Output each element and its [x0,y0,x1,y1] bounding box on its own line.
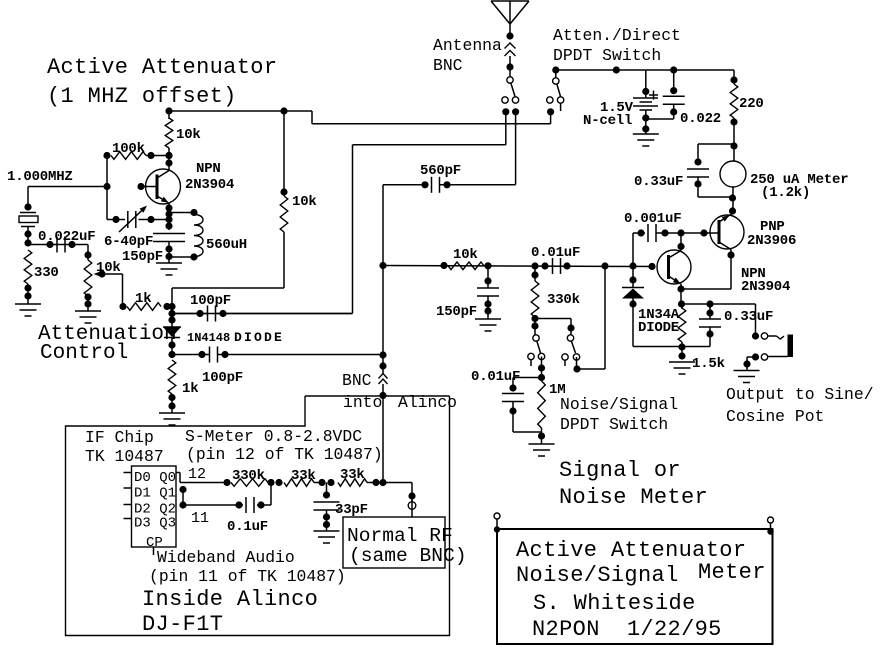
resistor 10k detector [440,262,491,270]
label: 0.022 [680,111,721,127]
svg-text:2N3906: 2N3906 [747,233,796,249]
switch S2b noise/signal [562,335,581,373]
resistor 330 [24,250,32,304]
wire: 560pF to detector [382,185,384,355]
svg-text:DIODE: DIODE [638,320,679,336]
svg-text:D3 Q3: D3 Q3 [134,516,176,532]
ground: pot [75,311,101,323]
svg-text:(pin 11 of TK 10487): (pin 11 of TK 10487) [149,567,346,586]
label: 10k pot [96,260,121,276]
label: 0.01uF noise [471,369,520,385]
label: 220 [739,96,764,112]
label: Signal or Noise Meter [559,458,708,510]
svg-text:220: 220 [739,96,764,112]
svg-text:33pF: 33pF [335,502,368,518]
svg-text:Noise/Signal: Noise/Signal [516,563,679,588]
svg-text:Normal RF: Normal RF [347,525,453,547]
capacitor 0.01uF coupling [531,258,570,274]
wire: to right pole [535,319,575,336]
svg-text:Signal or: Signal or [559,458,681,483]
label: Noise/Signal DPDT Switch [560,395,678,434]
jack: output tip [752,332,784,339]
svg-text:N-cell: N-cell [583,113,632,129]
wire: atten path S1a left throw down [505,112,507,145]
wire: detector line [379,262,655,270]
label: Wideband Audio (pin 11 of TK 10487) [149,548,346,586]
wire: emitter output rail [682,300,756,336]
label: 250 uA Meter (1.2k) [750,172,848,201]
resistor 330k [531,266,539,335]
transistor Q2 NPN 2N3904 [657,250,691,284]
box: title block [497,529,773,644]
label: 560pF [420,163,461,179]
label: BNC into Alinco [342,371,457,412]
svg-text:11: 11 [191,510,209,527]
svg-text:IF Chip: IF Chip [85,428,154,447]
ground: battery [633,134,659,146]
label: PNP 2N3906 [747,219,796,249]
wire: PNP collector to NPN emitter [681,250,735,290]
capacitor 100pF upper [172,306,353,322]
label: 150pF osc [122,249,163,265]
svg-text:DJ-F1T: DJ-F1T [142,612,223,637]
svg-text:1k: 1k [182,381,198,397]
ground: oscillator [156,263,182,275]
svg-text:2N3904: 2N3904 [185,177,234,193]
svg-text:DIODE: DIODE [234,330,284,345]
label: 100pF lower [202,370,243,386]
resistor 1M [538,381,546,444]
svg-text:6-40pF: 6-40pF [104,234,153,250]
ground: 1k bias [159,413,185,425]
label: 0.33uF output [724,309,773,325]
battery 1.5V N-cell [633,70,658,134]
svg-text:TK 10487: TK 10487 [85,447,164,466]
label: 1.5k [692,356,725,372]
label: + [649,91,658,100]
label: 560uH [206,237,247,253]
label: 1N4148 DIODE [187,330,284,345]
wire: switched supply rail [556,66,734,73]
capacitor 560pF [383,177,516,193]
ground: 330 [15,304,41,316]
svg-text:10k: 10k [453,247,478,263]
label: 6-40pF [104,234,153,250]
svg-text:Control: Control [40,342,128,365]
ground: 1.5k [669,362,695,374]
svg-text:1N4148: 1N4148 [187,331,230,345]
trimmer 6-40pF [112,206,169,232]
potentiometer 10k attenuation [84,245,92,312]
svg-text:2N3904: 2N3904 [741,279,790,295]
capacitor 0.022 [646,66,685,119]
ground: 33pF [314,531,340,543]
label: 1N34A DIODE [638,307,680,336]
label: 0.022uF [38,229,95,245]
wire: BNC feed [379,351,386,374]
label: S-Meter 0.8-2.8VDC [185,427,383,464]
label: 33pF [335,502,368,518]
resistor 33k first [284,479,335,487]
svg-text:10k: 10k [176,127,201,143]
connector: Normal RF jack [408,500,416,517]
wire: meter bottom [729,187,736,215]
svg-text:150pF: 150pF [436,304,477,320]
label: 33k first [291,468,316,484]
svg-text:100pF: 100pF [202,370,243,386]
label: 100k [112,141,145,157]
svg-text:33k: 33k [291,468,316,484]
title: Active Attenuator [47,55,277,109]
crystal Y1 [19,203,38,246]
label: Normal RF (same BNC) [347,525,467,567]
resistor 330k chain [231,479,283,487]
diode D2 1N34A [622,266,644,347]
svg-text:0.33uF: 0.33uF [634,174,683,190]
resistor 10k collector [165,107,173,171]
label: 0.1uF [227,519,268,535]
capacitor 150pF osc [153,234,185,264]
svg-text:0.001uF: 0.001uF [624,211,681,227]
switch S1b pole (meter supply) [547,66,564,115]
svg-text:Meter: Meter [698,560,766,585]
capacitor 100pF lower [172,347,383,363]
svg-text:12: 12 [188,466,206,483]
label: Attenuation Control [38,323,177,365]
svg-text:Noise Meter: Noise Meter [559,485,708,510]
svg-text:1k: 1k [135,291,151,307]
capacitor 0.022uF [28,237,88,253]
capacitor 0.001uF [633,224,719,242]
svg-text:NPN: NPN [196,161,221,177]
svg-text:Active Attenuator: Active Attenuator [47,55,277,80]
svg-text:560pF: 560pF [420,163,461,179]
wire: direct path S1a to 560pF [515,112,517,185]
svg-text:0.33uF: 0.33uF [724,309,773,325]
resistor 33k second [338,479,412,487]
capacitor 150pF detector [477,266,499,319]
svg-text:33k: 33k [340,467,365,483]
svg-text:100pF: 100pF [190,293,231,309]
svg-text:Cosine Pot: Cosine Pot [726,407,824,426]
svg-text:(1 MHZ offset): (1 MHZ offset) [47,84,237,109]
wire: S2b to detector line [577,266,605,369]
label: NPN 2N3904 [741,266,790,295]
svg-text:N2PON 1/22/95: N2PON 1/22/95 [532,617,722,642]
svg-text:100k: 100k [112,141,145,157]
resistor 1k attenuation [119,303,170,311]
svg-text:Noise/Signal: Noise/Signal [560,395,678,414]
pin CP stub [153,547,155,555]
transistor Q3 PNP 2N3906 [710,213,744,250]
label: 1k [135,291,151,307]
box: Inside Alinco DJ-F1T [66,396,450,636]
label: pin 12 [188,466,206,483]
label: 10k feedback [292,194,317,210]
meter M1 250uA [720,161,746,187]
svg-text:DPDT Switch: DPDT Switch [553,46,661,65]
label: 0.01uF [531,245,580,261]
jack: sleeve bar [788,335,794,358]
terminal right [767,517,773,535]
svg-text:0.1uF: 0.1uF [227,519,268,535]
svg-text:(same BNC): (same BNC) [349,545,467,567]
wire: 100k left leg [103,156,116,220]
label: 33k second [340,467,365,483]
label: Inside Alinco DJ-F1T [142,587,318,637]
label: 1.5V N-cell [583,100,634,129]
wire: Q2 collector up [677,233,684,251]
svg-text:S-Meter 0.8-2.8VDC: S-Meter 0.8-2.8VDC [185,427,362,446]
svg-text:S. Whiteside: S. Whiteside [533,591,696,616]
label: 0.33uF [634,174,683,190]
label: NPN 2N3904 [185,161,234,193]
svg-text:0.022: 0.022 [680,111,721,127]
switch S2a noise/signal [528,335,545,381]
svg-text:0.01uF: 0.01uF [471,369,520,385]
node: antenna BNC connector [505,32,516,70]
diode D1 1N4148 [163,327,181,358]
wire: Q1 emitter node [165,203,172,231]
inductor 560uH [169,209,203,261]
jack: output ring [743,353,787,370]
transistor Q1 NPN 2N3904 [137,169,180,204]
label: 10k [453,247,478,263]
svg-text:330k: 330k [232,468,265,484]
svg-text:(1.2k): (1.2k) [761,185,810,201]
label: 1M [549,382,565,398]
svg-text:DPDT Switch: DPDT Switch [560,415,668,434]
resistor 1k bias [168,360,176,413]
label: Output to Sine/ Cosine Pot [726,385,874,426]
node: BNC into Alinco [379,374,388,400]
label: 1k bias [182,381,198,397]
label: 1.000MHZ [7,169,73,185]
svg-text:0.01uF: 0.01uF [531,245,580,261]
svg-text:BNC: BNC [342,371,372,390]
antenna [491,1,529,36]
svg-text:560uH: 560uH [206,237,247,253]
ground: output jack [734,371,760,383]
capacitor 33pF [314,483,340,532]
ground: noise switch [529,444,555,456]
svg-text:1.5k: 1.5k [692,356,725,372]
label: Antenna BNC [433,36,502,75]
IC U1 TK10487 [124,466,177,547]
wiper arrow [94,270,123,306]
svg-text:(pin 12 of TK 10487): (pin 12 of TK 10487) [186,445,383,464]
resistor 220 [730,70,738,161]
resistor 1.5k [678,304,686,360]
wire: 1MHz to base [28,187,107,211]
svg-text:D1 Q1: D1 Q1 [134,486,176,502]
resistor 10k feedback [172,196,288,307]
svg-text:Wideband Audio: Wideband Audio [157,548,295,567]
wire: 0.001uF left leg [632,233,634,266]
label: 0.001uF [624,211,681,227]
svg-text:0.022uF: 0.022uF [38,229,95,245]
wire: BNC inside radio [382,396,384,483]
svg-text:Antenna: Antenna [433,36,502,55]
label: 10k collector [176,127,201,143]
wire: to Normal RF BNC [408,483,415,502]
svg-text:Inside Alinco: Inside Alinco [142,587,318,612]
wire: attenuated signal to S1a [172,145,506,314]
label: 330 [34,265,59,281]
svg-text:330k: 330k [547,292,580,308]
capacitor 0.01uF noise [502,378,542,433]
svg-text:10k: 10k [292,194,317,210]
svg-text:1M: 1M [549,382,565,398]
svg-text:BNC: BNC [433,56,463,75]
label: title block text [516,538,766,642]
label: 100pF upper [190,293,231,309]
ground: 150pF [475,319,501,331]
wire: diode bottom rail [633,343,710,350]
switch S1a pole (antenna) [502,70,519,115]
label: Atten./Direct DPDT Switch [553,26,681,65]
wire: osc out node [280,107,287,196]
label: 330k [547,292,580,308]
svg-text:330: 330 [34,265,59,281]
wire: pin12 to resistor chain [176,473,231,487]
label: 330k chain [232,468,265,484]
capacitor 0.1uF [179,483,271,514]
wire: S1b left throw down [550,112,552,124]
svg-text:D0 Q0: D0 Q0 [134,470,176,486]
node: attenuation output [168,303,175,327]
terminal left [494,513,500,533]
box: Normal RF (same BNC) [343,517,445,568]
IC pin labels [134,470,176,551]
svg-text:Atten./Direct: Atten./Direct [553,26,681,45]
wire: oscillator top rail to S1b [169,111,551,124]
label: pin 11 [191,510,209,527]
label: IF Chip TK 10487 [85,428,164,466]
label: 150pF [436,304,477,320]
svg-text:1.000MHZ: 1.000MHZ [7,169,73,185]
capacitor 0.33uF meter [687,144,733,197]
wire: Q2 emitter node [677,284,685,308]
svg-text:Output to Sine/: Output to Sine/ [726,385,874,404]
resistor 100k [103,152,172,160]
capacitor 0.33uF output [699,304,721,347]
